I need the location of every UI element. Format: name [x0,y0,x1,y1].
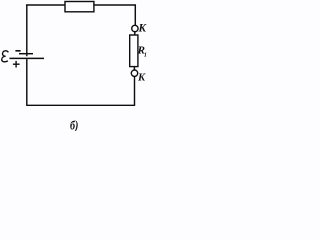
svg-text:K: K [137,73,146,84]
wire top horizontal left segment [26,4,65,6]
label plus sign [13,61,20,68]
wire stub K1 to R1 [134,32,136,35]
wire stub R1 to K2 [133,67,135,71]
svg-text:K: K [138,23,148,35]
resistor R (top box) [65,2,94,12]
wire right vertical lower (K2 to bottom corner) [134,77,136,106]
wire right vertical upper (top corner to switch K1) [134,4,136,25]
wire top horizontal right segment [93,4,135,6]
battery positive plate (long) [10,57,45,59]
resistor R1 (right box) [130,35,138,67]
battery negative plate (short) [19,53,33,55]
svg-text:1: 1 [144,52,147,58]
label EMF epsilon [2,51,9,62]
svg-text:б): б) [70,119,79,131]
switch K1 (top circle) [132,25,138,31]
label minus sign [15,50,20,52]
wire left vertical lower (battery to bottom corner) [26,59,28,105]
wire bottom horizontal [26,104,135,106]
wire left vertical upper (top corner to battery) [26,4,28,56]
switch K2 (bottom circle) [131,70,137,76]
